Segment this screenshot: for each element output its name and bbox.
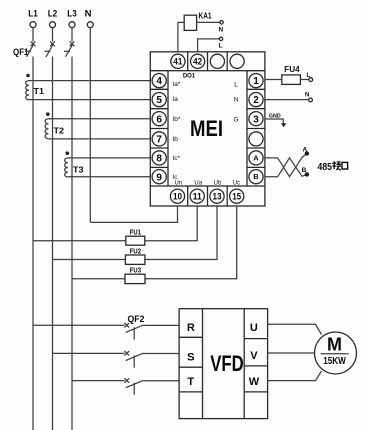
- svg-text:L3: L3: [67, 9, 77, 20]
- svg-text:V: V: [250, 350, 258, 362]
- svg-text:KA1: KA1: [199, 11, 212, 20]
- svg-text:QF2: QF2: [128, 314, 145, 324]
- svg-text:2: 2: [253, 95, 259, 106]
- svg-text:N: N: [305, 93, 309, 99]
- svg-text:T: T: [187, 376, 194, 388]
- svg-text:Uc: Uc: [233, 181, 240, 187]
- svg-text:T3: T3: [73, 166, 84, 175]
- svg-text:DO1: DO1: [183, 74, 196, 80]
- svg-text:QF1: QF1: [13, 47, 29, 57]
- svg-text:8: 8: [156, 154, 162, 165]
- svg-text:13: 13: [213, 192, 222, 202]
- svg-text:7: 7: [156, 135, 162, 146]
- svg-text:FU2: FU2: [130, 248, 141, 255]
- svg-text:FU1: FU1: [130, 230, 141, 237]
- svg-text:485: 485: [318, 162, 333, 173]
- svg-text:42: 42: [193, 57, 202, 67]
- svg-text:MEI: MEI: [190, 116, 223, 141]
- svg-text:T2: T2: [54, 127, 65, 136]
- svg-text:G: G: [233, 116, 238, 123]
- svg-text:Ib: Ib: [173, 136, 179, 143]
- svg-text:Un: Un: [174, 181, 182, 187]
- svg-text:Ub: Ub: [214, 181, 222, 187]
- svg-text:A: A: [302, 147, 307, 154]
- svg-text:9: 9: [156, 172, 162, 183]
- svg-text:U: U: [250, 322, 258, 334]
- svg-text:11: 11: [193, 192, 202, 202]
- svg-text:N: N: [218, 27, 223, 34]
- svg-text:N: N: [85, 9, 92, 20]
- svg-text:FU3: FU3: [130, 268, 141, 275]
- svg-text:L: L: [234, 82, 238, 89]
- svg-text:S: S: [187, 352, 194, 364]
- svg-text:A: A: [253, 153, 259, 162]
- svg-text:VFD: VFD: [210, 351, 244, 376]
- svg-text:W: W: [249, 376, 260, 388]
- svg-text:1: 1: [253, 76, 259, 87]
- svg-text:L: L: [307, 73, 311, 79]
- svg-text:41: 41: [173, 57, 182, 67]
- svg-text:R: R: [187, 322, 195, 334]
- svg-text:Ia: Ia: [173, 96, 179, 103]
- svg-text:FU4: FU4: [284, 65, 300, 74]
- svg-text:T1: T1: [34, 87, 45, 96]
- svg-text:L2: L2: [48, 9, 58, 20]
- svg-text:GND: GND: [269, 113, 281, 119]
- svg-text:Ia*: Ia*: [173, 81, 181, 88]
- svg-text:L1: L1: [28, 9, 38, 20]
- svg-text:L: L: [219, 43, 223, 50]
- svg-text:B: B: [302, 167, 307, 174]
- svg-text:M: M: [327, 335, 342, 355]
- svg-text:15: 15: [232, 192, 241, 202]
- svg-text:3: 3: [253, 114, 259, 125]
- svg-text:Ua: Ua: [194, 181, 202, 187]
- svg-text:5: 5: [156, 95, 162, 106]
- svg-text:N: N: [234, 97, 239, 104]
- svg-text:Ib*: Ib*: [173, 116, 181, 123]
- svg-text:B: B: [253, 172, 259, 181]
- svg-text:6: 6: [156, 114, 162, 125]
- svg-text:15KW: 15KW: [323, 356, 346, 367]
- svg-text:4: 4: [156, 76, 162, 87]
- svg-text:10: 10: [173, 192, 182, 202]
- svg-text:Ic*: Ic*: [173, 155, 181, 162]
